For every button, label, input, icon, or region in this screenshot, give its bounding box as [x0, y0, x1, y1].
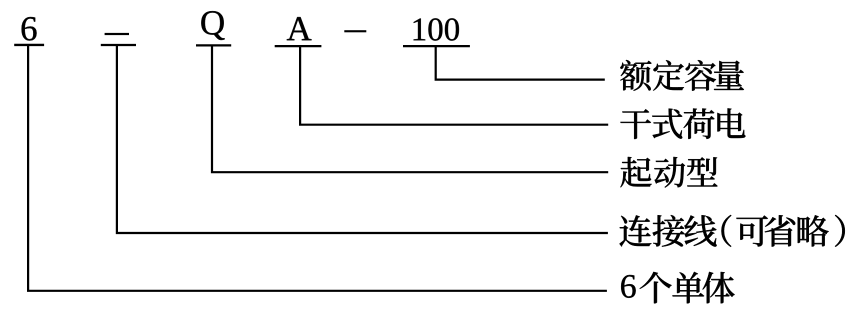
wire from 100 to rated-capacity label	[436, 46, 605, 80]
underline under Q	[196, 44, 231, 46]
wire from A to dry-charged label	[300, 46, 608, 125]
model char 6 (number of cells)	[22, 17, 37, 41]
label: connector, optional 连接线（可省略）	[619, 215, 844, 247]
model char A (dry charged)	[287, 17, 312, 40]
label: starting type 起动型	[620, 157, 717, 188]
label: dry charged 干式荷电	[620, 108, 745, 139]
underline under dash	[101, 44, 136, 46]
model number 100 (rated capacity)	[414, 18, 459, 40]
underline under A	[275, 45, 322, 47]
label: six cells 6个单体	[621, 272, 734, 303]
label: rated capacity 额定容量	[620, 60, 744, 91]
underline under 100	[403, 45, 470, 47]
model hyphen between A and 100	[344, 30, 366, 32]
model char Q (starting type)	[201, 11, 224, 40]
wire from dash to connector label	[117, 45, 608, 233]
wire from 6 to six-cells label	[28, 45, 607, 291]
wire from Q to starting-type label	[212, 45, 608, 172]
underline under 6	[14, 44, 44, 46]
model dash (connector symbol)	[105, 33, 129, 35]
